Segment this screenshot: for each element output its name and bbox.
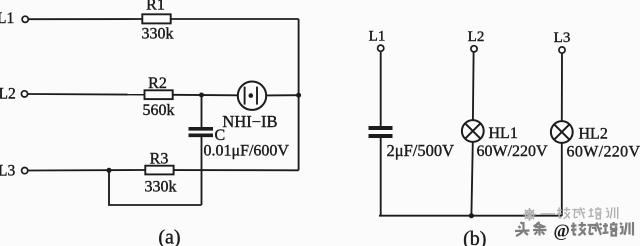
neon lamp left electrode — [244, 87, 246, 105]
lamp HL2 circle — [551, 121, 573, 143]
wire L2 branch to lamp HL1 — [472, 52, 475, 120]
watermark char ji2 — [571, 222, 586, 236]
lamp HL2 cross — [554, 124, 569, 139]
svg-text:C: C — [215, 127, 226, 144]
wire L3 branch to lamp HL2 — [561, 53, 563, 121]
svg-text:0.01μF/600V: 0.01μF/600V — [204, 143, 290, 160]
svg-text:60W/220V: 60W/220V — [477, 143, 549, 160]
capacitor C top plate — [189, 127, 214, 131]
wire L1 to R1 — [29, 18, 143, 20]
terminal L3 (b) — [559, 47, 565, 53]
wire capacitor to bottom rail — [380, 138, 382, 216]
terminal L2 (b) — [471, 46, 477, 52]
watermark light char pei — [588, 207, 601, 219]
capacitor 2uF bottom plate — [369, 134, 393, 138]
watermark char cheng2 — [588, 223, 603, 236]
svg-text:330k: 330k — [145, 178, 177, 195]
watermark char xun2 — [620, 222, 633, 236]
wire junction down to capacitor C — [201, 95, 203, 127]
watermark dash — [541, 213, 556, 215]
watermark char pei2 — [603, 222, 618, 236]
wire HL2 to bottom rail — [561, 143, 563, 216]
watermark light char ji — [557, 207, 570, 219]
resistor R3 — [145, 166, 173, 175]
resistor R1 — [142, 14, 170, 23]
svg-text:NHI−IB: NHI−IB — [222, 112, 277, 131]
watermark gear icon — [523, 208, 536, 221]
svg-text:L1: L1 — [0, 10, 14, 27]
resistor R2 — [145, 90, 173, 99]
svg-text:HL1: HL1 — [489, 125, 518, 142]
svg-text:60W/220V: 60W/220V — [567, 144, 640, 161]
svg-text:330k: 330k — [142, 25, 174, 42]
svg-text:L3: L3 — [0, 162, 15, 179]
wire R3 to right rail — [174, 169, 299, 171]
lamp HL1 cross — [465, 123, 480, 138]
wire capacitor down to loop — [201, 137, 203, 205]
terminal L3 — [22, 168, 28, 174]
neon lamp right electrode — [256, 87, 258, 105]
wire R1 to right rail — [171, 18, 299, 20]
svg-text:2μF/500V: 2μF/500V — [387, 141, 455, 160]
svg-text:L3: L3 — [554, 30, 571, 46]
wire bottom loop — [109, 170, 202, 205]
capacitor C bottom plate — [189, 134, 214, 138]
svg-text:(b): (b) — [463, 228, 486, 246]
wire R2 to neon lamp — [173, 94, 238, 97]
svg-text:560k: 560k — [143, 102, 175, 119]
wire HL1 to bottom rail — [471, 142, 472, 216]
svg-text:R2: R2 — [148, 75, 167, 92]
junction node bottom rail — [469, 213, 474, 218]
junction node right rail — [296, 93, 301, 98]
neon lamp centre dot — [249, 93, 254, 98]
junction node above C — [199, 93, 204, 98]
wire neon lamp to right rail — [266, 94, 298, 96]
svg-text:R1: R1 — [146, 0, 165, 14]
watermark char tiao — [533, 222, 547, 236]
svg-text:L2: L2 — [0, 86, 16, 103]
wire L2 to R2 — [28, 93, 145, 96]
watermark light char cheng — [572, 207, 585, 218]
svg-text:HL2: HL2 — [579, 125, 608, 142]
svg-text:@: @ — [554, 221, 570, 241]
wire L1 branch to capacitor — [380, 52, 382, 126]
svg-text:(a): (a) — [158, 227, 180, 246]
watermark char tou — [515, 222, 530, 236]
neon lamp U1 circle — [238, 82, 266, 110]
terminal L2 — [21, 91, 27, 97]
wire right rail vertical — [298, 19, 300, 170]
wire bottom rail (b) — [379, 215, 562, 217]
junction node L3 branch — [107, 168, 112, 173]
lamp HL1 circle — [462, 120, 484, 142]
terminal L1 — [22, 16, 28, 22]
svg-text:L1: L1 — [369, 29, 386, 45]
wire L3 to R3 — [28, 169, 145, 172]
svg-text:L2: L2 — [468, 29, 485, 45]
terminal L1 (b) — [378, 45, 384, 51]
svg-text:R3: R3 — [150, 150, 169, 167]
watermark light char xun — [606, 207, 617, 219]
capacitor 2uF top plate — [369, 126, 393, 130]
